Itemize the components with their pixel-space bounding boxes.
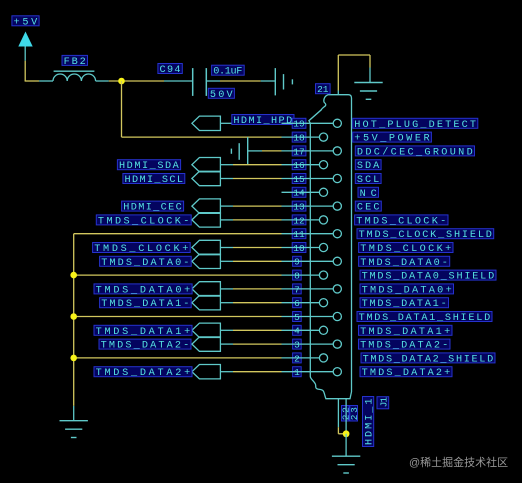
pin name label TMDS_DATA1_SHIELD — [357, 312, 492, 325]
svg-text:TMDS_DATA0_SHIELD: TMDS_DATA0_SHIELD — [362, 272, 495, 283]
svg-text:FB2: FB2 — [64, 57, 86, 68]
svg-text:TMDS_DATA0-: TMDS_DATA0- — [360, 258, 448, 269]
wire pin 21 to ground — [338, 55, 370, 91]
pin 8 of J1 — [282, 270, 328, 281]
pin 15 of J1 — [282, 174, 342, 185]
svg-text:17: 17 — [293, 146, 304, 157]
wire net TMDS_DATA0- — [221, 260, 282, 262]
wire net TMDS_DATA1+ — [221, 329, 282, 331]
junction dot shield pin 5 — [70, 313, 77, 320]
svg-text:8: 8 — [294, 271, 300, 282]
svg-text:TMDS_CLOCK_SHIELD: TMDS_CLOCK_SHIELD — [359, 230, 492, 241]
refdes label C94 — [158, 64, 182, 77]
pin 14 of J1 — [282, 187, 328, 198]
pin name label NC — [358, 187, 379, 200]
pin name label TMDS_CLOCK+ — [359, 243, 453, 256]
wire shield pin 2 — [74, 357, 282, 359]
pin 5 of J1 — [282, 312, 342, 323]
wire net HDMI_SDA — [221, 164, 282, 166]
svg-text:1: 1 — [294, 367, 300, 378]
value label 0.1uF — [212, 65, 245, 78]
svg-text:TMDS_DATA2-: TMDS_DATA2- — [360, 341, 448, 352]
svg-text:16: 16 — [293, 160, 305, 171]
port arrow HDMI_CEC — [192, 199, 221, 213]
pin 2 of J1 — [282, 353, 328, 364]
svg-text:TMDS_CLOCK-: TMDS_CLOCK- — [356, 216, 446, 227]
svg-text:4: 4 — [294, 326, 300, 337]
svg-text:HOT_PLUG_DETECT: HOT_PLUG_DETECT — [354, 120, 476, 131]
svg-text:7: 7 — [294, 284, 300, 295]
ferrite bead FB2 — [39, 71, 109, 81]
pin name label TMDS_CLOCK_SHIELD — [357, 229, 494, 242]
svg-text:2: 2 — [294, 353, 300, 364]
svg-text:SDA: SDA — [357, 161, 380, 172]
wire pin 22/23 join — [338, 427, 346, 434]
pin number label 22 — [340, 406, 351, 422]
net label TMDS_DATA0- — [100, 256, 192, 269]
pin name label TMDS_DATA2- — [359, 339, 451, 352]
junction dot shield pin 8 — [70, 272, 77, 279]
pin 11 of J1 — [282, 229, 342, 240]
port arrow TMDS_DATA0- — [192, 254, 221, 268]
svg-text:J1: J1 — [379, 397, 390, 408]
pin 10 of J1 — [282, 243, 328, 254]
svg-text:15: 15 — [293, 174, 305, 185]
svg-text:19: 19 — [293, 119, 305, 130]
port arrow HDMI_SCL — [192, 171, 221, 185]
svg-text:14: 14 — [293, 188, 305, 199]
connector J1 body outline — [309, 95, 352, 399]
pin 12 of J1 — [282, 215, 328, 226]
svg-text:HDMI_SDA: HDMI_SDA — [119, 161, 180, 172]
wire shield bus vertical — [73, 234, 75, 421]
wire net TMDS_DATA1- — [221, 302, 282, 304]
svg-text:TMDS_DATA2+: TMDS_DATA2+ — [362, 368, 451, 379]
svg-text:18: 18 — [293, 133, 305, 144]
pin 13 of J1 — [282, 201, 342, 212]
svg-text:SCL: SCL — [357, 175, 379, 186]
wire net HDMI_HPD — [221, 122, 282, 124]
pin name label SCL — [355, 174, 381, 187]
wire net TMDS_DATA2- — [221, 343, 282, 345]
svg-text:TMDS_CLOCK+: TMDS_CLOCK+ — [360, 244, 451, 255]
ground (connector shell) — [332, 456, 360, 473]
wire shield pin 11 — [74, 233, 282, 235]
pin number label 21 — [316, 84, 331, 95]
pin 3 of J1 — [282, 339, 342, 350]
svg-text:C94: C94 — [160, 65, 181, 76]
wire pin 17 — [248, 150, 282, 152]
svg-text:TMDS_DATA1_SHIELD: TMDS_DATA1_SHIELD — [359, 313, 491, 324]
svg-text:TMDS_DATA0+: TMDS_DATA0+ — [96, 285, 191, 296]
svg-text:23: 23 — [349, 407, 360, 420]
wire rail — [109, 80, 164, 82]
port arrow TMDS_CLOCK+ — [192, 240, 221, 254]
pin name label TMDS_DATA1+ — [359, 325, 453, 338]
pin name label +5V_POWER — [353, 132, 432, 145]
svg-text:21: 21 — [317, 84, 329, 95]
pin name label SDA — [355, 160, 381, 173]
net label TMDS_CLOCK+ — [93, 243, 191, 256]
net label TMDS_CLOCK- — [96, 215, 191, 228]
pin 16 of J1 — [282, 160, 328, 171]
capacitor C94 — [164, 68, 220, 96]
pin 9 of J1 — [282, 256, 342, 267]
pin 18 of J1 — [282, 132, 328, 143]
wire shield pin 5 — [74, 316, 282, 318]
net label TMDS_DATA0+ — [94, 284, 192, 297]
svg-text:9: 9 — [294, 257, 300, 268]
ground (right-facing) at C94 — [275, 68, 292, 95]
net label +5V — [12, 16, 39, 28]
ground (left-facing) on pin 17 net — [231, 137, 247, 165]
port arrow TMDS_DATA0+ — [192, 282, 221, 296]
svg-text:3: 3 — [294, 340, 300, 351]
svg-text:TMDS_DATA1-: TMDS_DATA1- — [362, 299, 447, 310]
svg-text:@稀土掘金技术社区: @稀土掘金技术社区 — [409, 455, 508, 469]
value label 50V — [208, 88, 234, 101]
svg-text:CEC: CEC — [357, 203, 380, 214]
pin name label TMDS_DATA2+ — [360, 367, 452, 380]
junction dot +5V rail — [118, 78, 125, 85]
wire net TMDS_DATA2+ — [221, 371, 282, 373]
port arrow HDMI_HPD — [192, 116, 221, 130]
net label TMDS_DATA2- — [99, 339, 191, 352]
net label HDMI_HPD — [232, 115, 294, 128]
ground (top right) — [354, 83, 382, 100]
wire net HDMI_SCL — [221, 178, 282, 180]
junction dot pins 22/23 — [343, 430, 350, 437]
pin number label 23 — [349, 406, 360, 422]
pin 17 of J1 — [282, 146, 342, 157]
svg-text:+5V_POWER: +5V_POWER — [354, 134, 429, 145]
pin 22 of J1 — [337, 399, 339, 428]
svg-text:HDMI_CEC: HDMI_CEC — [123, 203, 182, 214]
pin name label CEC — [355, 201, 381, 214]
wire net HDMI_CEC — [221, 205, 282, 207]
port arrow HDMI_SDA — [192, 158, 221, 172]
svg-text:TMDS_DATA1+: TMDS_DATA1+ — [96, 327, 191, 338]
pin 7 of J1 — [282, 284, 342, 295]
svg-text:TMDS_DATA1+: TMDS_DATA1+ — [360, 327, 450, 338]
port arrow TMDS_CLOCK- — [192, 213, 221, 227]
port arrow TMDS_DATA1- — [192, 296, 221, 310]
pin 6 of J1 — [282, 298, 328, 309]
pin 21 of J1 — [337, 91, 339, 95]
wire net TMDS_CLOCK- — [221, 219, 282, 221]
svg-text:11: 11 — [293, 229, 305, 240]
net label TMDS_DATA1+ — [94, 325, 192, 338]
net label HDMI_CEC — [122, 201, 184, 214]
wire to bottom ground — [345, 434, 347, 456]
pin name label TMDS_DATA0- — [359, 256, 450, 269]
pin 19 of J1 — [282, 118, 342, 129]
refdes label J1 — [377, 397, 390, 409]
value label HDMI_1 — [363, 397, 376, 447]
wire +5V branch to pin 18 — [122, 81, 282, 137]
wire net TMDS_DATA0+ — [221, 288, 282, 290]
svg-text:13: 13 — [293, 202, 305, 213]
value label FB2 — [62, 55, 88, 68]
pin name label DDC/CEC_GROUND — [355, 146, 474, 159]
svg-text:TMDS_DATA0+: TMDS_DATA0+ — [362, 285, 452, 296]
pin name label TMDS_DATA2_SHIELD — [361, 353, 495, 366]
net label TMDS_DATA2+ — [94, 367, 192, 380]
svg-text:5: 5 — [294, 312, 300, 323]
svg-text:HDMI_SCL: HDMI_SCL — [125, 175, 184, 186]
junction dot shield pin 2 — [70, 355, 77, 362]
wire net TMDS_CLOCK+ — [221, 247, 282, 249]
svg-text:TMDS_DATA1-: TMDS_DATA1- — [101, 299, 189, 310]
svg-text:TMDS_DATA2+: TMDS_DATA2+ — [96, 368, 191, 379]
port arrow TMDS_DATA2+ — [192, 365, 221, 379]
wire shield pin 8 — [74, 274, 282, 276]
pin 23 of J1 — [345, 399, 347, 434]
pin name label TMDS_DATA0+ — [360, 284, 454, 297]
net label HDMI_SDA — [117, 160, 180, 173]
svg-text:12: 12 — [293, 215, 305, 226]
net label HDMI_SCL — [123, 174, 185, 187]
svg-text:50V: 50V — [210, 90, 234, 101]
net label TMDS_DATA1- — [100, 298, 192, 311]
pin name label HOT_PLUG_DETECT — [353, 118, 478, 131]
svg-text:TMDS_CLOCK+: TMDS_CLOCK+ — [94, 244, 188, 255]
svg-text:6: 6 — [294, 298, 300, 309]
wire +5V vertical — [25, 61, 39, 81]
svg-text:TMDS_CLOCK-: TMDS_CLOCK- — [98, 216, 189, 227]
port arrow TMDS_DATA2- — [192, 337, 221, 351]
ground (shield bus) — [60, 421, 88, 438]
port arrow TMDS_DATA1+ — [192, 323, 221, 337]
svg-text:TMDS_DATA2_SHIELD: TMDS_DATA2_SHIELD — [363, 354, 494, 365]
svg-text:+5V: +5V — [14, 17, 39, 28]
wire C94 to ground — [220, 80, 275, 82]
svg-text:HDMI_HPD: HDMI_HPD — [233, 116, 292, 127]
pin name label TMDS_DATA0_SHIELD — [360, 270, 496, 283]
svg-text:10: 10 — [293, 243, 305, 254]
pin name label TMDS_DATA1- — [360, 298, 449, 311]
power symbol +5V — [18, 32, 32, 61]
svg-text:0.1uF: 0.1uF — [213, 67, 242, 78]
svg-text:TMDS_DATA0-: TMDS_DATA0- — [101, 258, 189, 269]
svg-text:TMDS_DATA2-: TMDS_DATA2- — [101, 341, 190, 352]
pin 1 of J1 — [282, 367, 342, 378]
pin name label TMDS_CLOCK- — [355, 215, 448, 228]
pin 4 of J1 — [282, 325, 328, 336]
